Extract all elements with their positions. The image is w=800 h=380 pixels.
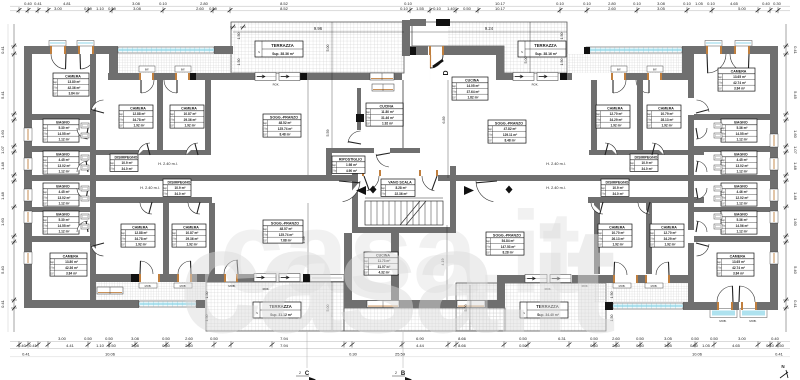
svg-text:Sup.: Sup. <box>53 82 58 84</box>
entry diamond right <box>506 186 513 194</box>
dim terrace top-left 9.96 <box>233 31 404 33</box>
svg-text:CAMERA: CAMERA <box>181 106 197 110</box>
svg-text:2.60: 2.60 <box>612 336 621 341</box>
svg-text:INF.: INF. <box>181 69 186 72</box>
svg-text:MOB.: MOB. <box>651 284 658 288</box>
svg-text:34.78 m²: 34.78 m² <box>133 118 146 122</box>
wall kitchen-right block <box>496 46 504 80</box>
svg-text:34.29 m²: 34.29 m² <box>610 118 623 122</box>
svg-text:1.12 m²: 1.12 m² <box>737 170 748 174</box>
svg-text:S.Vol.: S.Vol. <box>49 268 55 270</box>
svg-text:S.Vol.: S.Vol. <box>487 135 493 137</box>
svg-text:Sup.: Sup. <box>452 86 457 88</box>
bath fixture 8 <box>81 224 89 229</box>
door camera-block bottom-right <box>697 244 710 256</box>
svg-text:1.50: 1.50 <box>237 59 241 66</box>
svg-text:DISIMPEGNO: DISIMPEGNO <box>606 180 629 184</box>
label VANO SCALA <box>380 179 415 196</box>
window left wall 2 <box>24 158 32 170</box>
svg-text:H. 2.40 m.l.: H. 2.40 m.l. <box>546 186 565 190</box>
svg-text:S.F.: S.F. <box>650 244 654 246</box>
svg-text:TERRAZZA: TERRAZZA <box>271 43 294 48</box>
svg-text:MOB.: MOB. <box>749 319 756 323</box>
bath fixture 7 <box>81 214 89 219</box>
label CAMERA top-right <box>717 68 755 91</box>
svg-text:1.12 m²: 1.12 m² <box>737 230 748 234</box>
wall h camera/bagno left <box>24 114 96 120</box>
label CAMERA bottom-right-mid1 <box>597 224 632 247</box>
svg-text:1.48: 1.48 <box>0 191 5 200</box>
svg-text:Sup.: Sup. <box>721 160 726 162</box>
svg-text:S.F.: S.F. <box>121 244 125 246</box>
bath fixture 11 <box>714 155 722 160</box>
svg-text:INF.: INF. <box>617 69 622 72</box>
wall h bagno1/bagno2 right <box>694 146 770 152</box>
svg-text:10.70 m²: 10.70 m² <box>612 231 625 235</box>
window right wall 5 <box>770 252 778 264</box>
door entry D <box>429 46 431 55</box>
door camera-mid2 bottom <box>188 202 200 214</box>
door bottom-right balcony 2 <box>741 302 743 310</box>
svg-text:0.50: 0.50 <box>690 343 699 348</box>
svg-text:Sup.: Sup. <box>718 77 723 79</box>
sliding door terrace-bottom-right B <box>550 275 571 283</box>
svg-text:SOGG.-PRANZO: SOGG.-PRANZO <box>495 121 523 125</box>
svg-text:BAGNO: BAGNO <box>56 152 70 156</box>
window left wall 4 <box>24 211 32 223</box>
svg-text:S.F.: S.F. <box>172 244 176 246</box>
label BAGNO 2 left <box>42 151 79 174</box>
svg-text:Sup.: Sup. <box>119 114 124 116</box>
svg-text:BAGNO: BAGNO <box>56 120 70 124</box>
svg-text:0.10: 0.10 <box>633 1 642 6</box>
svg-text:1.12 m²: 1.12 m² <box>59 202 70 206</box>
pillar top-right glazing <box>584 47 590 54</box>
svg-text:Sup.: Sup. <box>43 220 48 222</box>
svg-text:Sup.: Sup. <box>488 129 493 131</box>
label SOGG-PRANZO top-right <box>487 120 526 143</box>
window head north 4 <box>647 66 663 72</box>
svg-text:MOB.: MOB. <box>719 319 726 323</box>
svg-text:1.12 m²: 1.12 m² <box>737 202 748 206</box>
svg-text:S.Vol.: S.Vol. <box>52 88 58 90</box>
wall kitchen bay south <box>344 300 505 308</box>
svg-text:34.29 m²: 34.29 m² <box>664 237 677 241</box>
svg-text:1.12 m²: 1.12 m² <box>59 170 70 174</box>
svg-text:1.12 m²: 1.12 m² <box>59 138 70 142</box>
svg-text:S.F.: S.F. <box>721 139 725 141</box>
svg-text:3.84 m²: 3.84 m² <box>69 92 80 96</box>
svg-text:3.05: 3.05 <box>664 343 673 348</box>
label DISIMPEGNO bottom-right <box>600 179 629 196</box>
wall room1/room2 bottom <box>163 203 169 274</box>
stair treads <box>365 201 443 225</box>
french door room-south-r1 <box>613 275 615 283</box>
french door room-north-r1 <box>611 73 613 80</box>
wall north-center <box>346 73 370 80</box>
svg-text:S.F.: S.F. <box>717 273 721 275</box>
svg-text:Sup.: Sup. <box>721 128 726 130</box>
door bagno3-left <box>77 188 88 199</box>
wall entry bay top <box>410 19 426 26</box>
french door room1-north <box>139 73 141 80</box>
entry arrow left <box>356 186 366 195</box>
terrace top-left hatch (TERRAZZA 38.36) <box>231 22 404 73</box>
svg-text:S.Vol.: S.Vol. <box>169 120 175 122</box>
door camera-midr1 top <box>652 143 664 155</box>
window head top-right 1 <box>705 41 722 47</box>
door top-left balcony 2 <box>78 46 80 54</box>
svg-text:5.36 m²: 5.36 m² <box>737 126 748 130</box>
svg-text:S.F.: S.F. <box>718 88 722 90</box>
dim vert 4.19 right-bottom <box>446 225 448 300</box>
svg-text:47.82 m²: 47.82 m² <box>504 127 517 131</box>
svg-text:0.50: 0.50 <box>636 336 645 341</box>
svg-text:S.F.: S.F. <box>721 203 725 205</box>
svg-text:Sup.: Sup. <box>110 163 115 165</box>
svg-text:4.81: 4.81 <box>63 1 72 6</box>
svg-text:1.55: 1.55 <box>416 6 425 11</box>
wall bottom-right block south <box>683 302 717 310</box>
svg-text:42.36 m²: 42.36 m² <box>65 266 78 270</box>
svg-text:S.F.: S.F. <box>721 231 725 233</box>
french door room-north-r2 <box>647 73 649 80</box>
door camera-mid2 top <box>186 143 198 155</box>
svg-text:1.60: 1.60 <box>0 129 5 138</box>
door apartment entry lower-right <box>476 181 493 202</box>
svg-text:0.50: 0.50 <box>776 343 785 348</box>
svg-text:CUCINA: CUCINA <box>380 104 394 108</box>
label CAMERA bottom-right-mid2 <box>649 224 684 247</box>
svg-text:0.40: 0.40 <box>766 343 775 348</box>
svg-text:MOB.: MOB. <box>145 284 152 288</box>
svg-text:13.65 m²: 13.65 m² <box>732 260 745 264</box>
svg-text:125.74 m²: 125.74 m² <box>278 127 293 131</box>
svg-text:S.F.: S.F. <box>53 93 57 95</box>
door camera-block top-right <box>697 100 710 112</box>
door camera-midr2 top <box>605 143 617 155</box>
svg-text:0.40: 0.40 <box>762 1 771 6</box>
window sill MOB 3 <box>613 283 631 288</box>
svg-text:1.82 m²: 1.82 m² <box>468 96 479 100</box>
svg-text:Sup.: Sup. <box>43 160 48 162</box>
label SOGG-PRANZO bottom-left <box>262 220 303 243</box>
svg-text:3.08: 3.08 <box>131 336 140 341</box>
label SOGG-PRANZO bottom-right <box>485 232 524 255</box>
terrace top-right hatch (TERRAZZA 38.16) <box>448 22 567 73</box>
svg-text:BAGNO: BAGNO <box>734 120 748 124</box>
svg-text:BAGNO: BAGNO <box>734 152 748 156</box>
label SOGG-PRANZO top-left <box>262 114 301 137</box>
svg-text:14.55 m²: 14.55 m² <box>58 132 71 136</box>
svg-text:3.84 m²: 3.84 m² <box>734 87 745 91</box>
svg-text:TERRAZZA: TERRAZZA <box>534 43 557 48</box>
dim vert 5.00 right terrace <box>529 22 531 73</box>
svg-text:4.45 m²: 4.45 m² <box>737 158 748 162</box>
svg-text:3.05: 3.05 <box>657 6 666 11</box>
svg-text:0.41: 0.41 <box>775 352 784 357</box>
svg-text:S.Vol.: S.Vol. <box>109 169 115 171</box>
door living terrace bottom-left <box>224 274 226 282</box>
svg-text:8.52: 8.52 <box>280 6 289 11</box>
entry diamond left <box>370 186 377 194</box>
svg-text:S.Vol.: S.Vol. <box>646 120 652 122</box>
svg-text:4.90 m²: 4.90 m² <box>346 169 357 173</box>
sliding door terrace-bottom-left A <box>254 274 276 282</box>
svg-text:1.92 m²: 1.92 m² <box>611 124 622 128</box>
window right wall 3 <box>770 189 778 201</box>
dimension column left <box>13 24 15 332</box>
svg-text:1.60: 1.60 <box>0 217 5 226</box>
svg-text:5.00: 5.00 <box>524 57 528 64</box>
svg-text:0.30: 0.30 <box>773 1 782 6</box>
svg-text:CUCINA: CUCINA <box>465 78 479 82</box>
svg-text:12.88 m²: 12.88 m² <box>135 231 148 235</box>
svg-text:0.10: 0.10 <box>400 6 409 11</box>
svg-text:5.36 m²: 5.36 m² <box>737 218 748 222</box>
stair landing line <box>365 197 443 199</box>
svg-text:3.84 m²: 3.84 m² <box>66 272 77 276</box>
wall h camera/bagno right <box>694 114 770 120</box>
label DISIMPEGNO top-right <box>629 154 658 171</box>
bath fixture 13 <box>714 186 722 191</box>
svg-text:Sup.: Sup. <box>50 262 55 264</box>
svg-text:0.50: 0.50 <box>162 336 171 341</box>
svg-text:37.64 m²: 37.64 m² <box>467 90 480 94</box>
svg-text:S.F.: S.F. <box>43 139 47 141</box>
svg-text:Sup.: Sup. <box>647 114 652 116</box>
window left wall 1 <box>24 128 32 141</box>
svg-text:4.65: 4.65 <box>732 343 741 348</box>
window kitchen-left north <box>370 73 394 80</box>
svg-text:5.40: 5.40 <box>0 265 5 274</box>
svg-text:10.79 m²: 10.79 m² <box>661 112 674 116</box>
wall left-block divider v bottom <box>90 181 96 302</box>
wall veranda right jamb <box>682 54 691 73</box>
svg-text:0.50: 0.50 <box>463 6 472 11</box>
svg-text:2: 2 <box>395 371 397 375</box>
wall rooms north bottom-right <box>588 197 704 203</box>
label TERRAZZA bottom-right <box>520 302 568 318</box>
wall left outer <box>24 46 32 308</box>
svg-text:26.13 m²: 26.13 m² <box>612 237 625 241</box>
svg-text:10.9 m²: 10.9 m² <box>642 161 653 165</box>
french door room2-south-l <box>177 274 179 282</box>
svg-text:DISIMPEGNO: DISIMPEGNO <box>115 155 138 159</box>
door bagno4-left <box>77 221 88 232</box>
window head north 1 <box>139 66 155 72</box>
svg-text:1.50: 1.50 <box>560 59 564 66</box>
window glazing top-left <box>118 47 214 53</box>
wall veranda left jamb <box>109 54 118 73</box>
svg-text:0.40: 0.40 <box>18 343 27 348</box>
wall room1/room2 top <box>157 80 163 154</box>
window glazing bottom-right <box>613 303 683 309</box>
wall spine stair gap jambs <box>338 175 358 181</box>
door ripostiglio <box>376 154 389 167</box>
pillar bottom-left glazing <box>196 300 205 308</box>
svg-text:0.10: 0.10 <box>159 1 168 6</box>
terrace bottom-left hatch (TERRAZZA 31.12) <box>206 282 344 331</box>
svg-text:CAMERA: CAMERA <box>132 225 148 229</box>
svg-text:0.41: 0.41 <box>0 45 5 54</box>
window sill MOB 2 <box>174 283 192 288</box>
svg-text:Sup.: Sup. <box>650 233 655 235</box>
svg-text:1.48: 1.48 <box>0 161 5 170</box>
svg-text:0.10: 0.10 <box>583 1 592 6</box>
svg-text:Sup.: Sup. <box>721 192 726 194</box>
svg-text:1.48: 1.48 <box>793 162 798 171</box>
dim 1.50 top-left terrace edge <box>231 25 235 30</box>
label BAGNO 4 left <box>42 211 79 234</box>
bath fixture 6 <box>81 196 89 201</box>
window head bottom-right 2 <box>740 309 767 318</box>
wall top-right block <box>682 46 706 54</box>
svg-text:42.74 m²: 42.74 m² <box>733 81 746 85</box>
bath fixture 16 <box>714 224 722 229</box>
wall h bagno3/bagno4 left-bottom <box>24 207 96 212</box>
svg-text:10.06: 10.06 <box>692 352 703 357</box>
svg-text:1.98 m²: 1.98 m² <box>346 163 357 167</box>
svg-text:H. 2.40 m.l.: H. 2.40 m.l. <box>546 162 565 166</box>
svg-text:8.48 m²: 8.48 m² <box>280 133 291 137</box>
svg-text:6.89: 6.89 <box>442 117 446 124</box>
svg-text:0.50: 0.50 <box>105 336 114 341</box>
terrace bottom-right hatch (TERRAZZA 34.40) <box>456 283 606 331</box>
wall disimpegno-ripostiglio <box>326 148 332 176</box>
svg-text:5.00: 5.00 <box>326 45 330 52</box>
dim vert 6.90 top-right <box>429 60 431 80</box>
window head north 2 <box>175 66 191 72</box>
svg-text:1.10: 1.10 <box>96 6 105 11</box>
door apartment entry right <box>419 170 421 176</box>
window sill MOB 1 <box>139 283 157 288</box>
window head north 3 <box>611 66 627 72</box>
door top-right balcony 2 <box>734 46 736 54</box>
sliding door terrace-bottom-left B <box>279 274 300 282</box>
svg-text:Sup. 38.16 m²: Sup. 38.16 m² <box>535 52 558 56</box>
label TERRAZZA top-left <box>255 41 303 57</box>
pillar north-left 2 <box>300 73 307 80</box>
label CAMERA mid-top-r2 <box>646 105 681 128</box>
svg-text:5.00: 5.00 <box>738 6 747 11</box>
svg-text:2.60: 2.60 <box>608 6 617 11</box>
svg-text:S.Vol.: S.Vol. <box>118 120 124 122</box>
svg-text:13.02 m²: 13.02 m² <box>58 164 71 168</box>
bath fixture 4 <box>81 165 89 170</box>
svg-text:1.50: 1.50 <box>560 33 564 40</box>
window living bottom-left <box>310 275 344 282</box>
door top-left balcony 1 <box>50 46 52 54</box>
svg-text:0.41: 0.41 <box>0 299 5 308</box>
wall left-block divider v <box>90 54 96 180</box>
wall h bagno4/camera left-bottom <box>24 236 96 242</box>
label RIPOSTIGLIO <box>331 156 365 173</box>
veranda top-left hatch <box>109 54 233 73</box>
door camera-mid1 bottom <box>140 202 152 214</box>
svg-text:S.Vol.: S.Vol. <box>595 120 601 122</box>
svg-text:0.10: 0.10 <box>433 6 442 11</box>
door bagno2-left <box>77 161 88 172</box>
pillar south-left 1 <box>131 274 139 282</box>
wall terrace divider <box>402 20 410 56</box>
svg-text:12.88 m²: 12.88 m² <box>133 112 146 116</box>
svg-text:1.92 m²: 1.92 m² <box>382 122 393 126</box>
door camera-midr2 bottom <box>591 202 603 214</box>
svg-text:5.41: 5.41 <box>0 90 5 99</box>
wall right-block divider v top <box>688 54 694 98</box>
french door room1-south-l <box>139 274 141 282</box>
svg-text:4.45 m²: 4.45 m² <box>59 190 70 194</box>
dim vert 4.59 left-bottom <box>307 203 309 277</box>
wall rooms south bottom-right <box>504 275 525 283</box>
door bagno4-right <box>696 221 707 232</box>
svg-text:1.12 m²: 1.12 m² <box>59 230 70 234</box>
section line B <box>402 332 404 368</box>
svg-text:S.F.: S.F. <box>170 125 174 127</box>
svg-text:DISIMPEGNO: DISIMPEGNO <box>168 180 191 184</box>
pillar north-left <box>190 73 196 80</box>
svg-text:Sup. 38.36 m²: Sup. 38.36 m² <box>272 52 295 56</box>
svg-text:casa.it: casa.it <box>179 196 615 364</box>
bath fixture 1 <box>81 123 89 128</box>
svg-text:12.70 m²: 12.70 m² <box>664 231 677 235</box>
label CUCINA bottom-center <box>363 252 398 275</box>
wall kitchen bay party <box>391 233 399 300</box>
sliding door terrace-left A <box>255 73 276 81</box>
svg-text:S.F.: S.F. <box>119 125 123 127</box>
svg-text:12.02 m²: 12.02 m² <box>736 196 749 200</box>
window right wall 2 <box>770 158 778 170</box>
label CAMERA mid-bot-1 <box>120 224 155 247</box>
window right wall 1 <box>770 134 778 147</box>
svg-text:5.40: 5.40 <box>793 266 798 275</box>
wall rooms north-right <box>504 73 513 80</box>
label DISIMPEGNO top-left <box>109 154 138 171</box>
svg-text:BAGNO: BAGNO <box>734 212 748 216</box>
svg-text:0.50: 0.50 <box>162 343 171 348</box>
svg-text:SOGG.-PRANZO: SOGG.-PRANZO <box>270 115 298 119</box>
veranda top-right hatch <box>567 54 691 73</box>
window kitchen bay 1 <box>367 301 399 308</box>
svg-text:14.55 m²: 14.55 m² <box>736 132 749 136</box>
svg-text:3.00: 3.00 <box>738 336 747 341</box>
svg-text:N: N <box>781 364 784 369</box>
svg-text:0.10: 0.10 <box>683 1 692 6</box>
dim vert 5.00 bottom-left terrace <box>331 282 333 330</box>
svg-text:1.50: 1.50 <box>237 33 241 40</box>
window right wall 4 <box>770 211 778 223</box>
svg-text:3.08: 3.08 <box>131 343 140 348</box>
svg-text:1.48: 1.48 <box>793 192 798 201</box>
door bottom-right balcony 1 <box>717 302 719 310</box>
svg-text:H. 2.40 m.l.: H. 2.40 m.l. <box>158 162 177 166</box>
dim vert 5.59 left <box>307 80 309 175</box>
veranda bottom-left hatch <box>94 282 206 300</box>
svg-text:34.0 m²: 34.0 m² <box>122 167 133 171</box>
svg-text:14.55 m²: 14.55 m² <box>58 224 71 228</box>
sliding door terrace-right B <box>537 73 558 81</box>
window kitchen bay 2 <box>457 301 485 308</box>
wall bottom-left block south <box>24 300 139 308</box>
svg-text:5.45: 5.45 <box>793 91 798 100</box>
svg-text:10.06: 10.06 <box>105 352 116 357</box>
label DISIMPEGNO bottom-left <box>162 179 191 196</box>
svg-text:129.11 m²: 129.11 m² <box>503 133 517 137</box>
svg-text:0.50: 0.50 <box>691 336 700 341</box>
svg-text:4.41: 4.41 <box>66 343 75 348</box>
svg-text:1.92 m²: 1.92 m² <box>185 124 196 128</box>
